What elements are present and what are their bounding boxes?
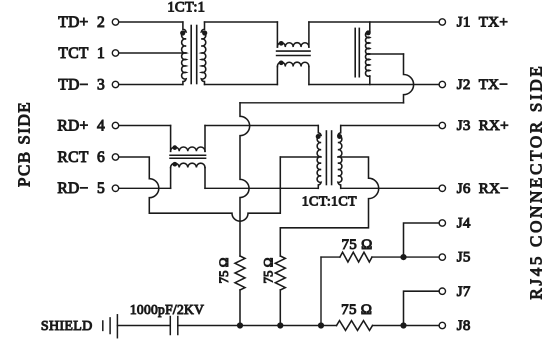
transformer T1 secondary winding (201, 22, 205, 85)
polarity dot L1 bottom (279, 60, 284, 65)
wire R3 feed horizontal (321, 256, 340, 258)
label 75 Ohm (R2) (261, 258, 276, 284)
pin J1 (439, 19, 445, 25)
svg-text:J3 RX+: J3 RX+ (457, 118, 509, 134)
pin RCT (6) (112, 154, 118, 160)
label 75 Ohm (R3) (341, 237, 372, 253)
label RD- 5 (57, 180, 105, 197)
shield ground symbol (103, 315, 118, 338)
pin J4 (439, 220, 445, 226)
polarity dot L1 top (279, 41, 284, 46)
core L2 (355, 28, 359, 76)
svg-text:J1 TX+: J1 TX+ (457, 15, 508, 31)
label J4 (457, 216, 471, 232)
pin J7 (439, 288, 445, 294)
svg-text:TCT 1: TCT 1 (58, 45, 105, 62)
wire T1 secondary top to choke L1 (205, 21, 278, 23)
label RCT 6 (58, 149, 105, 166)
svg-text:J4: J4 (457, 216, 471, 232)
label PCB SIDE (15, 101, 34, 187)
svg-text:J8: J8 (457, 318, 471, 334)
polarity dot L2 (366, 30, 371, 35)
label J6 RX- (457, 181, 509, 197)
label TD+ 2 (58, 14, 105, 31)
resistor R4 75 Ohm (337, 321, 373, 331)
choke L1 bottom winding (277, 62, 309, 84)
polarity dot T1 secondary (202, 30, 207, 35)
core L3 (170, 155, 206, 158)
core T2 (326, 131, 331, 185)
svg-text:75 Ω: 75 Ω (216, 258, 231, 284)
svg-text:RJ45 CONNECTOR SIDE: RJ45 CONNECTOR SIDE (527, 64, 546, 300)
svg-text:J6 RX−: J6 RX− (457, 181, 509, 197)
wire capacitor to ground rail (178, 325, 337, 327)
label RJ45 CONNECTOR SIDE (527, 64, 546, 300)
svg-text:75 Ω: 75 Ω (341, 302, 372, 318)
junction dot rail R1 (237, 322, 243, 328)
wire rail drop with hops over RX wires (240, 103, 250, 256)
autotransformer L2 winding (365, 22, 369, 85)
transformer T2 primary winding (317, 126, 321, 189)
svg-text:J5: J5 (457, 250, 471, 266)
wire TD+ to T1 (119, 21, 183, 23)
wire TCT to T1 center tap (119, 52, 186, 54)
pin J2 (439, 81, 445, 87)
pin RD+ (4) (112, 122, 118, 128)
pin J5 (439, 254, 445, 260)
wire J7 L-drop (404, 291, 440, 325)
transformer T2 secondary winding (338, 126, 342, 189)
svg-text:PCB SIDE: PCB SIDE (15, 101, 34, 187)
wire RCT jog with hop over RD- (119, 157, 281, 221)
label 1CT:1CT (302, 194, 357, 209)
wire T2 secondary top to J3 (341, 125, 439, 127)
label RD+ 4 (57, 117, 105, 134)
label TD- 3 (58, 76, 105, 93)
label J1 TX+ (457, 15, 508, 31)
core T1 (191, 26, 197, 84)
junction dot rail R2 (277, 322, 283, 328)
transformer T1 primary winding (TD side) (182, 22, 186, 85)
svg-text:RD− 5: RD− 5 (57, 180, 105, 197)
wire RD- to choke L3 (119, 187, 171, 189)
wire T1 secondary bottom to choke L1 (205, 84, 278, 86)
junction dot rail R3 feed (318, 322, 324, 328)
svg-text:1CT:1: 1CT:1 (167, 0, 205, 15)
wire R3 feed vertical (320, 257, 322, 325)
wire choke L3 top to T2 (205, 125, 318, 127)
resistor R1 75 Ohm (235, 256, 245, 326)
label 75 Ohm (R1) (216, 258, 231, 284)
wire TX termination rail (240, 102, 404, 104)
svg-text:RCT 6: RCT 6 (58, 149, 105, 166)
wire TD- to T1 (119, 84, 183, 86)
pin RD- (5) (112, 185, 118, 191)
svg-text:1CT:1CT: 1CT:1CT (302, 194, 357, 209)
label 1000pF/2KV (130, 302, 204, 317)
polarity dot L3 bottom (172, 162, 177, 167)
wire L2 center tap (370, 53, 404, 55)
capacitor C1 1000pF/2KV (170, 317, 178, 335)
pin TCT (1) (112, 50, 118, 56)
wire T2 secondary tap with hop over J6 wire (280, 157, 378, 256)
svg-text:SHIELD: SHIELD (41, 319, 93, 334)
core L1 (277, 51, 310, 55)
polarity dot L3 top (172, 145, 177, 150)
svg-text:TD+ 2: TD+ 2 (58, 14, 105, 31)
polarity dot T2 secondary (337, 134, 342, 139)
wire L2 tap drop with hop over J2 wire (404, 54, 414, 103)
pin TD+ (2) (112, 19, 118, 25)
choke L1 top winding (277, 22, 309, 47)
wire RD+ to choke L3 (119, 125, 171, 127)
choke L3 top winding (171, 126, 205, 152)
wire choke L1 bottom to J2 (row through hop) (309, 84, 439, 86)
svg-text:TD− 3: TD− 3 (58, 76, 105, 93)
svg-text:75 Ω: 75 Ω (261, 258, 276, 284)
junction dot J8 (400, 322, 406, 328)
resistor R2 75 Ohm (275, 256, 285, 326)
wire choke L1 top to J1 (309, 21, 439, 23)
svg-text:J7: J7 (457, 284, 471, 300)
label 1CT:1 (167, 0, 205, 15)
wire R3 to J5 (372, 256, 439, 258)
label 75 Ohm (R4) (341, 302, 372, 318)
svg-text:75 Ω: 75 Ω (341, 237, 372, 253)
svg-text:J2 TX−: J2 TX− (457, 77, 508, 93)
label J2 TX- (457, 77, 508, 93)
svg-text:RD+ 4: RD+ 4 (57, 117, 105, 134)
wire shield to capacitor C1 (117, 325, 170, 327)
label J5 (457, 250, 471, 266)
wire T2 secondary bottom to J6 (341, 187, 439, 189)
resistor R3 75 Ohm (340, 252, 372, 262)
junction dot J5 (400, 254, 406, 260)
choke L3 bottom winding (171, 163, 205, 188)
wire J4 L-drop (404, 223, 440, 257)
wire choke L3 bottom to T2 (205, 187, 318, 189)
pin J6 (439, 185, 445, 191)
polarity dot T1 primary (180, 30, 185, 35)
label J3 RX+ (457, 118, 509, 134)
pin J3 (439, 122, 445, 128)
label TCT 1 (58, 45, 105, 62)
label J7 (457, 284, 471, 300)
wire T2 primary center tap (280, 156, 321, 158)
pin TD- (3) (112, 81, 118, 87)
svg-text:1000pF/2KV: 1000pF/2KV (130, 302, 204, 317)
label J8 (457, 318, 471, 334)
polarity dot T2 primary (316, 134, 321, 139)
label SHIELD (41, 319, 93, 334)
wire R4 to J8 (373, 325, 440, 327)
pin J8 (439, 322, 445, 328)
